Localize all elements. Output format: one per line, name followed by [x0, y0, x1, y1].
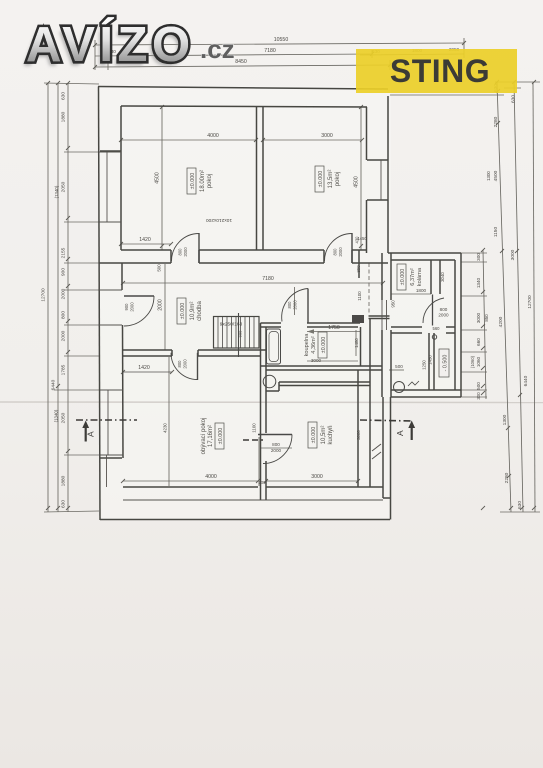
svg-text:pokoj: pokoj — [335, 172, 341, 186]
svg-text:4000: 4000 — [207, 133, 219, 139]
svg-text:200: 200 — [259, 480, 267, 485]
svg-text:660: 660 — [476, 338, 481, 346]
svg-text:kuchyň: kuchyň — [328, 425, 334, 444]
svg-text:(1340): (1340) — [54, 409, 59, 422]
svg-text:950: 950 — [391, 300, 396, 308]
svg-text:A: A — [395, 430, 405, 436]
svg-text:300: 300 — [476, 392, 481, 400]
svg-text:AVÍZO: AVÍZO — [26, 18, 195, 72]
svg-text:±0.000: ±0.000 — [318, 171, 324, 187]
svg-text:500: 500 — [476, 382, 481, 390]
svg-text:7180: 7180 — [262, 276, 274, 282]
svg-text:1450: 1450 — [428, 355, 433, 365]
svg-text:12700: 12700 — [527, 295, 533, 309]
svg-text:18.00m²: 18.00m² — [200, 170, 206, 192]
svg-text:A: A — [86, 431, 96, 437]
svg-text:(1060): (1060) — [470, 355, 475, 368]
svg-text:4500: 4500 — [354, 176, 360, 188]
svg-text:900: 900 — [124, 303, 129, 311]
svg-text:1340: 1340 — [476, 277, 481, 288]
svg-text:13,5m²: 13,5m² — [328, 170, 334, 189]
svg-text:7180: 7180 — [264, 48, 276, 54]
svg-text:2155: 2155 — [61, 247, 67, 258]
svg-text:2050: 2050 — [61, 412, 67, 423]
svg-text:9x250/163: 9x250/163 — [220, 322, 243, 328]
svg-text:8450: 8450 — [235, 59, 247, 65]
svg-text:850: 850 — [484, 314, 489, 322]
svg-text:±0.000: ±0.000 — [400, 269, 406, 285]
svg-text:10,5m²: 10,5m² — [321, 426, 327, 445]
svg-text:4500: 4500 — [155, 172, 161, 184]
svg-text:1800: 1800 — [416, 288, 427, 293]
svg-text:630: 630 — [61, 500, 67, 508]
svg-text:±0.000: ±0.000 — [190, 173, 196, 189]
svg-text:±0.000: ±0.000 — [321, 337, 327, 353]
svg-text:1250: 1250 — [422, 360, 427, 370]
svg-text:2000: 2000 — [271, 448, 282, 453]
svg-text:pokoj: pokoj — [207, 174, 213, 188]
svg-text:1100: 1100 — [357, 291, 362, 301]
svg-text:300: 300 — [476, 253, 481, 261]
svg-text:300: 300 — [356, 265, 361, 273]
svg-text:2000: 2000 — [158, 299, 164, 311]
svg-text:(1340): (1340) — [54, 185, 59, 198]
svg-text:±0.000: ±0.000 — [311, 427, 317, 443]
svg-text:6440: 6440 — [523, 375, 529, 386]
svg-text:3000: 3000 — [321, 133, 333, 139]
svg-text:3000: 3000 — [356, 430, 361, 440]
svg-text:koupelna: koupelna — [304, 333, 310, 357]
svg-text:800: 800 — [178, 248, 183, 256]
svg-text:800: 800 — [287, 301, 292, 309]
svg-text:630: 630 — [517, 501, 523, 509]
svg-text:chodba: chodba — [197, 300, 203, 320]
svg-text:1100: 1100 — [252, 423, 257, 433]
svg-text:800: 800 — [177, 360, 182, 368]
svg-text:- 0.500: - 0.500 — [443, 355, 449, 372]
svg-text:1450: 1450 — [357, 236, 367, 241]
svg-text:900: 900 — [238, 330, 243, 337]
svg-text:1420: 1420 — [139, 237, 151, 243]
svg-text:2000: 2000 — [438, 313, 449, 318]
svg-text:obývací pokoj: obývací pokoj — [201, 418, 207, 455]
svg-text:2000: 2000 — [61, 288, 67, 299]
svg-text:2050: 2050 — [61, 181, 67, 192]
svg-text:1150: 1150 — [493, 227, 499, 238]
svg-text:1880: 1880 — [61, 475, 67, 486]
svg-text:.cz: .cz — [200, 34, 235, 64]
svg-text:4230: 4230 — [163, 423, 168, 433]
svg-text:4000: 4000 — [205, 474, 217, 480]
svg-text:6440: 6440 — [51, 379, 57, 390]
svg-text:4200: 4200 — [498, 316, 504, 327]
svg-text:900: 900 — [61, 268, 67, 276]
svg-text:kolárna: kolárna — [417, 267, 423, 286]
svg-text:1785: 1785 — [61, 364, 67, 375]
svg-text:±0.000: ±0.000 — [218, 428, 224, 444]
svg-text:500: 500 — [157, 264, 162, 272]
svg-text:STING: STING — [390, 53, 490, 89]
svg-text:4,36m²: 4,36m² — [311, 336, 317, 354]
svg-text:4500: 4500 — [493, 170, 499, 181]
svg-text:2000: 2000 — [183, 247, 188, 257]
svg-text:2000: 2000 — [293, 300, 298, 310]
svg-text:800: 800 — [61, 311, 67, 319]
svg-text:630: 630 — [61, 92, 67, 100]
svg-text:3000: 3000 — [311, 474, 323, 480]
svg-text:2000: 2000 — [338, 247, 343, 257]
svg-text:3000: 3000 — [510, 249, 516, 260]
svg-text:±0.000: ±0.000 — [180, 303, 186, 319]
svg-text:2280: 2280 — [504, 472, 510, 483]
svg-text:12700: 12700 — [41, 288, 47, 302]
svg-text:1420: 1420 — [138, 365, 150, 371]
svg-text:6,37m²: 6,37m² — [410, 268, 416, 286]
svg-text:10,9m²: 10,9m² — [190, 302, 196, 321]
svg-text:3000: 3000 — [476, 312, 481, 323]
svg-text:560: 560 — [433, 326, 441, 331]
svg-text:3040: 3040 — [440, 272, 445, 282]
svg-text:10x210x200: 10x210x200 — [206, 217, 232, 223]
svg-text:800: 800 — [440, 307, 448, 312]
svg-text:3000: 3000 — [311, 358, 322, 363]
svg-text:1300: 1300 — [486, 171, 491, 181]
svg-text:800: 800 — [333, 248, 338, 256]
svg-text:1750: 1750 — [328, 325, 340, 331]
svg-text:10550: 10550 — [274, 37, 289, 43]
svg-text:630: 630 — [511, 95, 517, 103]
svg-text:2000: 2000 — [61, 330, 67, 341]
svg-text:1060: 1060 — [476, 356, 481, 367]
svg-text:500: 500 — [395, 364, 403, 369]
svg-text:2280: 2280 — [493, 116, 499, 127]
svg-text:1480: 1480 — [354, 338, 359, 348]
svg-text:17,16m²: 17,16m² — [208, 425, 214, 447]
svg-text:2000: 2000 — [183, 359, 188, 369]
svg-text:1300: 1300 — [502, 414, 508, 425]
svg-text:2000: 2000 — [130, 302, 135, 312]
svg-text:800: 800 — [272, 442, 280, 447]
svg-text:1880: 1880 — [61, 111, 67, 122]
